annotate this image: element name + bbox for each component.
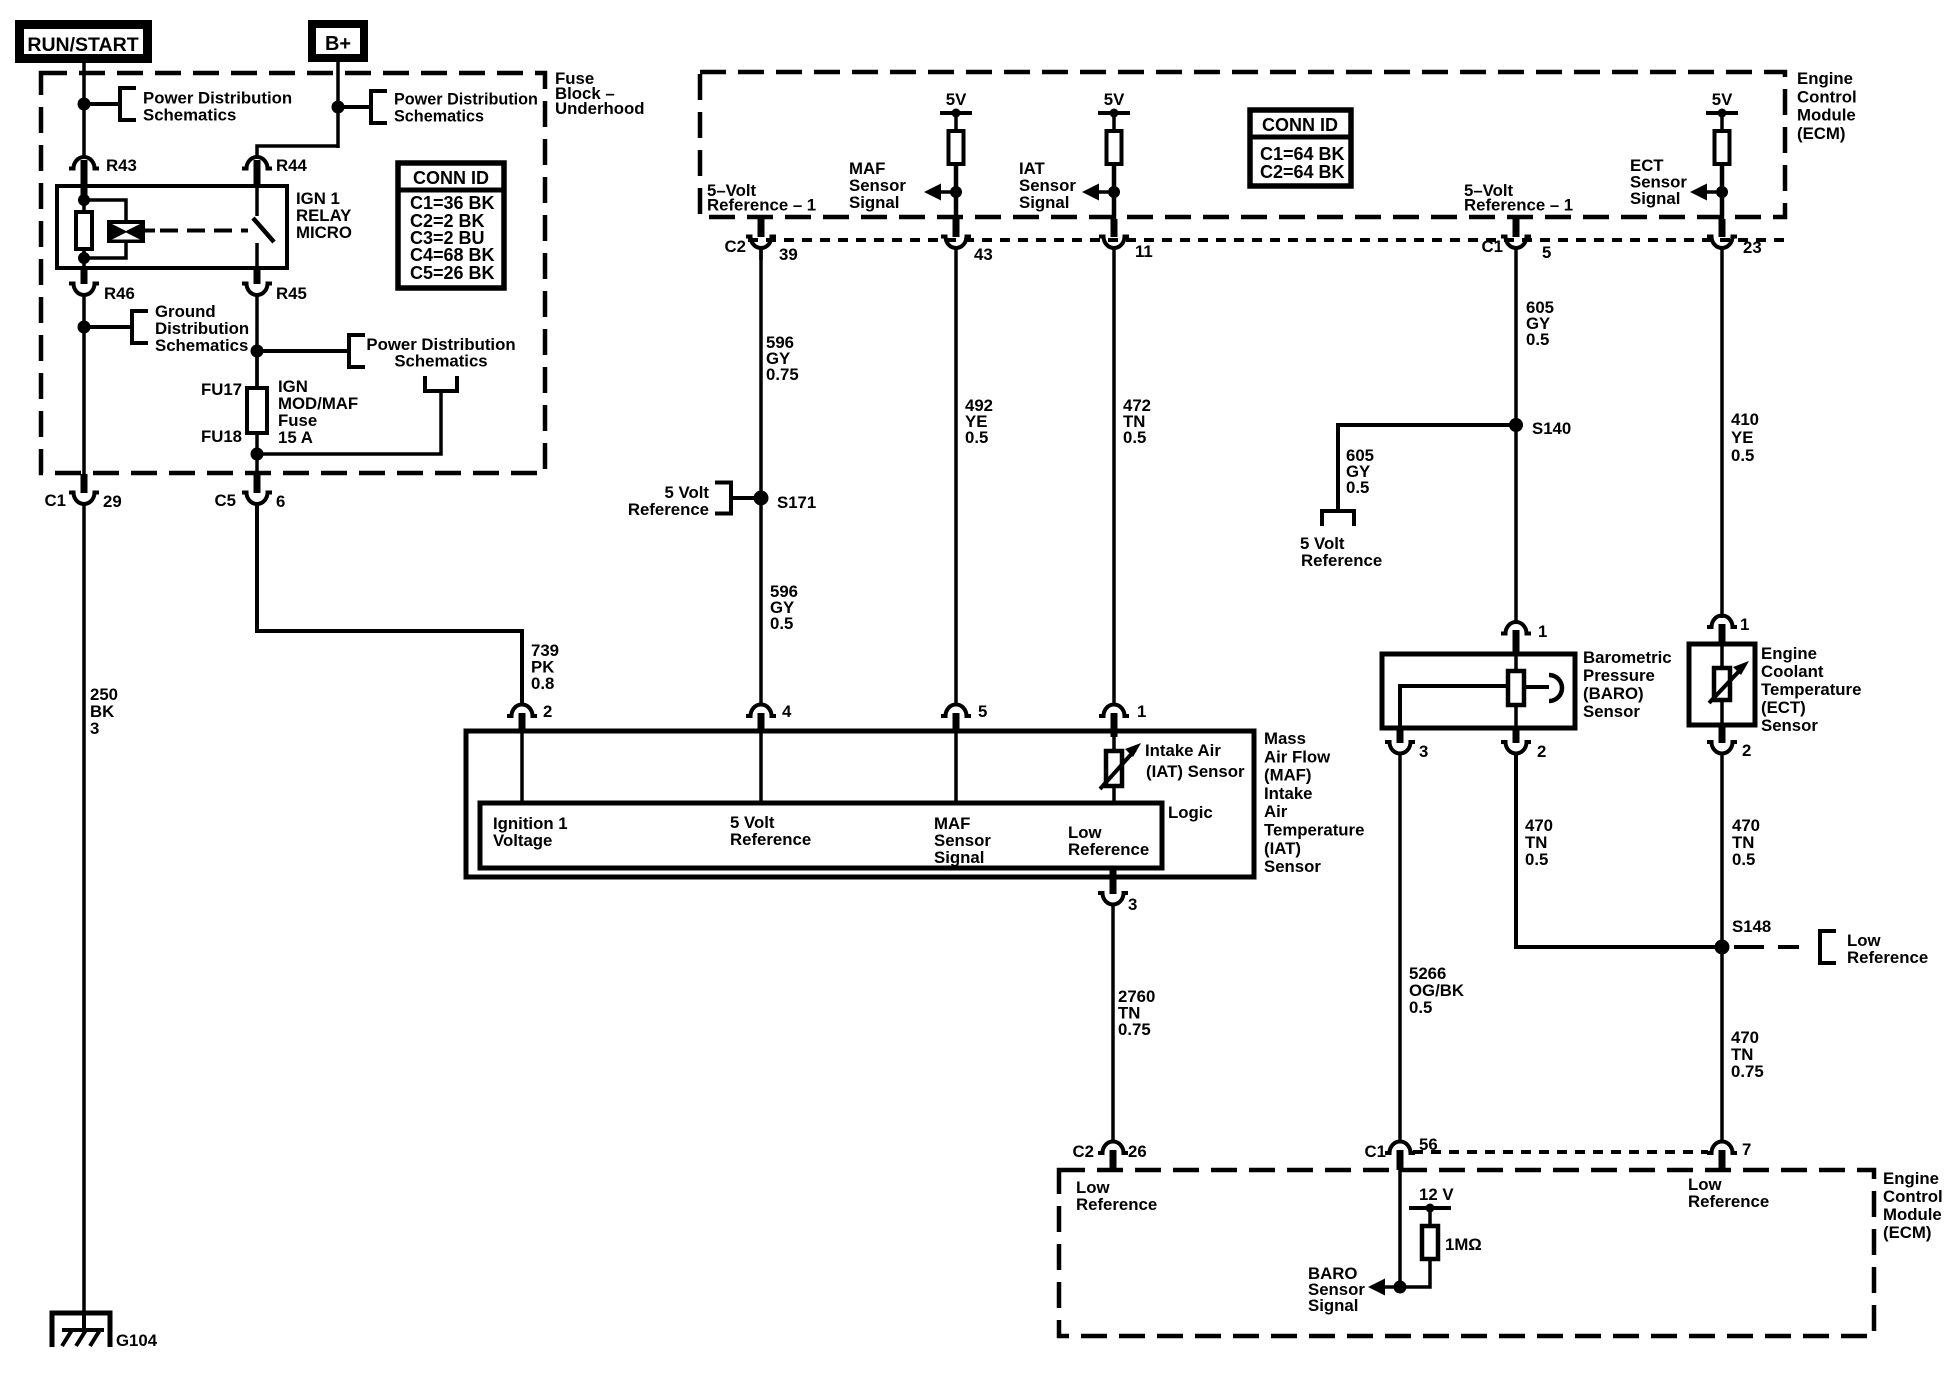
svg-text:5: 5 bbox=[978, 702, 987, 721]
svg-text:RUN/START: RUN/START bbox=[27, 34, 138, 56]
connector R46 bbox=[81, 268, 88, 284]
svg-text:0.5: 0.5 bbox=[965, 428, 988, 447]
svg-text:3: 3 bbox=[90, 719, 99, 738]
svg-text:0.5: 0.5 bbox=[1123, 428, 1146, 447]
svg-text:Mass: Mass bbox=[1264, 729, 1306, 748]
svg-text:B+: B+ bbox=[325, 33, 351, 55]
connector 1 (BARO) bbox=[1501, 622, 1531, 634]
svg-text:Engine: Engine bbox=[1883, 1169, 1939, 1188]
svg-text:Reference: Reference bbox=[1301, 551, 1382, 570]
svg-text:3: 3 bbox=[1419, 742, 1428, 761]
svg-text:S140: S140 bbox=[1532, 419, 1571, 438]
svg-text:Underhood: Underhood bbox=[555, 99, 645, 118]
connector 3 bbox=[1110, 869, 1117, 894]
svg-text:Reference: Reference bbox=[1688, 1192, 1769, 1211]
svg-text:Coolant: Coolant bbox=[1761, 662, 1824, 681]
svg-text:0.5: 0.5 bbox=[1409, 998, 1432, 1017]
svg-text:Schematics: Schematics bbox=[143, 106, 236, 125]
svg-text:FU18: FU18 bbox=[201, 427, 242, 446]
connector 1 (ECT) bbox=[1707, 616, 1737, 628]
splice S148 bbox=[1715, 940, 1730, 955]
connector 2 (ECT) bbox=[1719, 725, 1726, 743]
ECM harness connector dotted line bbox=[748, 238, 1788, 242]
svg-text:Control: Control bbox=[1797, 87, 1857, 106]
svg-text:C2=64 BK: C2=64 BK bbox=[1260, 162, 1345, 182]
relay coil branch wire bbox=[84, 200, 126, 220]
junction to power distribution tap bbox=[332, 101, 345, 114]
relay switch fixed contact bbox=[255, 186, 259, 216]
svg-text:Pressure: Pressure bbox=[1583, 666, 1655, 685]
svg-text:C4=68 BK: C4=68 BK bbox=[410, 245, 495, 265]
connector C1 29 bbox=[81, 474, 88, 493]
svg-text:Logic: Logic bbox=[1168, 803, 1213, 822]
svg-text:Intake Air: Intake Air bbox=[1145, 741, 1221, 760]
svg-text:6: 6 bbox=[276, 492, 285, 511]
wire 596 GY to S171 and connector 4 bbox=[759, 246, 763, 706]
signal arrow bbox=[1716, 186, 1728, 198]
svg-text:C1: C1 bbox=[1482, 237, 1503, 256]
svg-text:FU17: FU17 bbox=[201, 380, 242, 399]
svg-text:5V: 5V bbox=[1104, 90, 1125, 109]
svg-text:29: 29 bbox=[103, 492, 122, 511]
svg-text:Sensor: Sensor bbox=[1583, 702, 1640, 721]
svg-text:MICRO: MICRO bbox=[296, 223, 352, 242]
connector 4 bbox=[746, 705, 776, 717]
CONN ID table (ECM) bbox=[1250, 110, 1351, 186]
connector C5 6 bbox=[254, 474, 261, 493]
connector 11 bbox=[1111, 219, 1118, 237]
svg-text:1: 1 bbox=[1740, 615, 1749, 634]
svg-text:4: 4 bbox=[782, 702, 792, 721]
wire 2760 TN bbox=[1111, 903, 1115, 1143]
svg-text:Reference – 1: Reference – 1 bbox=[1464, 196, 1573, 215]
off-page tap Power Distribution Schematics bbox=[120, 88, 136, 120]
Engine Control Module (ECM) dashed boundary bbox=[700, 72, 1785, 217]
wire 250 BK to ground bbox=[82, 503, 86, 1316]
junction BARO signal bbox=[1394, 1281, 1407, 1294]
svg-text:Schematics: Schematics bbox=[394, 352, 487, 371]
terminal wires inside MAF box bbox=[520, 731, 524, 803]
relay switch blade bbox=[253, 218, 274, 242]
svg-text:Engine: Engine bbox=[1797, 69, 1853, 88]
CONN ID table (fuse block) bbox=[398, 163, 504, 288]
wire C5 to MAF connector 2 bbox=[257, 503, 522, 705]
svg-text:Schematics: Schematics bbox=[394, 108, 484, 126]
wire 5266 OG/BK BARO-3 down bbox=[1398, 752, 1402, 1143]
svg-text:C5: C5 bbox=[215, 491, 236, 510]
relay coil lower node bbox=[78, 252, 90, 264]
svg-text:S171: S171 bbox=[777, 493, 816, 512]
svg-text:26: 26 bbox=[1128, 1142, 1147, 1161]
wire RUN/START down to R43 bbox=[82, 63, 86, 157]
off-page tap 5 Volt Reference bbox=[715, 483, 731, 514]
off-page tap Power Distribution Schematics bbox=[371, 91, 387, 123]
connector 7 bbox=[1707, 1142, 1737, 1154]
relay switch lower contact bbox=[255, 243, 259, 268]
svg-text:Voltage: Voltage bbox=[493, 831, 552, 850]
svg-text:Reference: Reference bbox=[628, 500, 709, 519]
wire R45 down to fuse bbox=[255, 294, 259, 388]
svg-text:R43: R43 bbox=[106, 156, 137, 175]
svg-text:CONN ID: CONN ID bbox=[1262, 115, 1338, 135]
svg-text:2: 2 bbox=[1537, 742, 1546, 761]
svg-text:C2: C2 bbox=[1073, 1142, 1094, 1161]
IAT thermistor bbox=[1112, 735, 1116, 751]
connector C2 26 bbox=[1098, 1142, 1128, 1154]
svg-text:Schematics: Schematics bbox=[155, 336, 248, 355]
svg-text:43: 43 bbox=[974, 245, 993, 264]
junction to power distribution tap bbox=[78, 98, 91, 111]
connector R44 bbox=[242, 157, 272, 169]
svg-text:11: 11 bbox=[1135, 242, 1153, 261]
BARO internal low reference wire bbox=[1400, 686, 1509, 728]
wire 472 TN bbox=[1112, 246, 1116, 706]
svg-text:0.75: 0.75 bbox=[1118, 1020, 1151, 1039]
svg-text:R44: R44 bbox=[276, 156, 307, 175]
svg-text:(IAT): (IAT) bbox=[1264, 839, 1301, 858]
off-page tap Ground Distribution Schematics bbox=[132, 311, 148, 343]
fuse block underhood dashed boundary bbox=[41, 73, 545, 473]
splice S140 bbox=[1509, 418, 1523, 432]
relay actuation dashed link bbox=[145, 229, 155, 233]
svg-text:0.5: 0.5 bbox=[1526, 330, 1549, 349]
wire C2-39 stub bbox=[759, 247, 763, 260]
svg-text:1: 1 bbox=[1538, 622, 1547, 641]
svg-text:0.5: 0.5 bbox=[1732, 850, 1755, 869]
power feed box B+ bbox=[308, 20, 368, 62]
wire R46 down bbox=[82, 294, 86, 478]
wire below fuse bbox=[255, 433, 259, 478]
relay coil (bowtie symbol) bbox=[107, 220, 145, 243]
power feed box RUN/START bbox=[15, 20, 152, 63]
wire 470 TN BARO-2 to S148 bbox=[1516, 752, 1722, 947]
svg-text:1MΩ: 1MΩ bbox=[1445, 1235, 1482, 1254]
svg-text:Barometric: Barometric bbox=[1583, 648, 1672, 667]
relay suppression resistor bbox=[82, 200, 86, 212]
connector 5 bbox=[941, 705, 971, 717]
svg-text:C1: C1 bbox=[45, 491, 66, 510]
svg-text:Sensor: Sensor bbox=[1264, 857, 1321, 876]
off-page tap pointer down bbox=[1322, 511, 1354, 526]
fuse IGN MOD/MAF 15A FU17-FU18 bbox=[255, 351, 259, 388]
svg-text:Module: Module bbox=[1797, 106, 1856, 125]
ground G104 bbox=[52, 1313, 110, 1347]
off-page tap Low Reference bbox=[1820, 931, 1836, 963]
wire S140 branch to 5 volt reference pointer bbox=[1338, 425, 1516, 511]
svg-text:Temperature: Temperature bbox=[1761, 680, 1861, 699]
svg-text:(ECM): (ECM) bbox=[1797, 124, 1845, 143]
off-page tap Power Distribution Schematics (right) bbox=[349, 335, 365, 367]
svg-text:5V: 5V bbox=[1712, 90, 1733, 109]
BARO signal arrow bbox=[1385, 1285, 1400, 1289]
svg-text:12 V: 12 V bbox=[1419, 1185, 1454, 1204]
connector 23 bbox=[1719, 219, 1726, 237]
svg-text:0.5: 0.5 bbox=[770, 614, 793, 633]
wire 492 YE bbox=[954, 246, 958, 706]
signal arrow bbox=[1108, 186, 1120, 198]
connector 2 bbox=[507, 705, 537, 717]
svg-text:410: 410 bbox=[1731, 410, 1759, 429]
svg-text:C2: C2 bbox=[725, 237, 746, 256]
svg-text:Reference: Reference bbox=[1076, 1195, 1157, 1214]
svg-text:39: 39 bbox=[779, 245, 798, 264]
svg-text:(ECT): (ECT) bbox=[1761, 698, 1806, 717]
BARO sensor box bbox=[1382, 654, 1575, 728]
relay coil input node bbox=[78, 194, 90, 206]
svg-text:Reference: Reference bbox=[1068, 840, 1149, 859]
connector 3 (BARO) bbox=[1397, 728, 1404, 743]
svg-text:S148: S148 bbox=[1732, 917, 1771, 936]
svg-text:2: 2 bbox=[543, 702, 552, 721]
relay IGN 1 RELAY MICRO box bbox=[57, 186, 287, 268]
svg-text:0.5: 0.5 bbox=[1525, 850, 1548, 869]
svg-text:0.8: 0.8 bbox=[531, 674, 554, 693]
svg-text:2: 2 bbox=[1742, 741, 1751, 760]
wire 470 TN ECT-2 down through S148 bbox=[1720, 752, 1724, 1143]
MAF logic box bbox=[480, 803, 1162, 868]
svg-text:5: 5 bbox=[1542, 243, 1551, 262]
svg-text:Signal: Signal bbox=[849, 193, 899, 212]
wire B+ down with jog to R44 bbox=[336, 62, 340, 148]
svg-text:CONN ID: CONN ID bbox=[413, 168, 489, 188]
junction ground distribution tap bbox=[78, 321, 91, 334]
connector R45 bbox=[254, 268, 261, 284]
svg-text:15 A: 15 A bbox=[278, 428, 313, 447]
svg-text:Power Distribution: Power Distribution bbox=[394, 91, 538, 109]
dashed link to low reference tap bbox=[1734, 945, 1799, 949]
junction below fuse bbox=[251, 448, 264, 461]
connector 43 bbox=[953, 219, 960, 237]
svg-text:Reference – 1: Reference – 1 bbox=[707, 196, 816, 215]
svg-text:(IAT) Sensor: (IAT) Sensor bbox=[1146, 762, 1245, 781]
svg-text:5V: 5V bbox=[946, 90, 967, 109]
svg-text:0.75: 0.75 bbox=[766, 365, 799, 384]
MAF/IAT sensor outer box bbox=[466, 731, 1254, 877]
ECT sensor box bbox=[1689, 644, 1755, 725]
BARO internal resistor bbox=[1514, 654, 1518, 671]
svg-text:R46: R46 bbox=[104, 284, 135, 303]
svg-text:Signal: Signal bbox=[1019, 193, 1069, 212]
svg-text:(MAF): (MAF) bbox=[1264, 766, 1312, 785]
svg-text:Signal: Signal bbox=[1630, 189, 1680, 208]
svg-text:C1=64 BK: C1=64 BK bbox=[1260, 144, 1345, 164]
svg-text:R45: R45 bbox=[276, 284, 307, 303]
connector 1 bbox=[1099, 705, 1129, 717]
wire 410 YE to ECT bbox=[1720, 246, 1724, 618]
svg-text:(ECM): (ECM) bbox=[1883, 1223, 1931, 1242]
junction fuse / power distribution tap bbox=[251, 345, 264, 358]
svg-text:C5=26 BK: C5=26 BK bbox=[410, 263, 495, 283]
svg-text:(BARO): (BARO) bbox=[1583, 684, 1644, 703]
svg-text:Temperature: Temperature bbox=[1264, 821, 1364, 840]
svg-text:7: 7 bbox=[1742, 1140, 1751, 1159]
svg-text:Engine: Engine bbox=[1761, 644, 1817, 663]
Engine Control Module (ECM) bottom dashed boundary bbox=[1059, 1170, 1874, 1336]
svg-text:3: 3 bbox=[1128, 895, 1137, 914]
svg-text:23: 23 bbox=[1743, 238, 1762, 257]
svg-text:0.5: 0.5 bbox=[1731, 446, 1754, 465]
connector C1 5 bbox=[1513, 219, 1520, 237]
BARO pressure transducer arc bbox=[1524, 685, 1549, 689]
svg-text:Signal: Signal bbox=[934, 848, 984, 867]
connector C1 56 bbox=[1385, 1142, 1415, 1154]
svg-text:Module: Module bbox=[1883, 1205, 1942, 1224]
connector 2 (BARO) bbox=[1513, 728, 1520, 743]
svg-text:0.75: 0.75 bbox=[1731, 1062, 1764, 1081]
ECT thermistor bbox=[1720, 644, 1724, 668]
svg-text:Air: Air bbox=[1264, 802, 1288, 821]
bottom ECM harness connector dotted line bbox=[1413, 1150, 1708, 1154]
svg-text:Intake: Intake bbox=[1264, 784, 1313, 803]
svg-text:Control: Control bbox=[1883, 1187, 1943, 1206]
wire 605 GY C1-5 to BARO bbox=[1514, 246, 1518, 624]
wire coil to lower node bbox=[88, 243, 126, 258]
svg-text:C1: C1 bbox=[1365, 1142, 1386, 1161]
signal arrow bbox=[950, 186, 962, 198]
svg-text:Reference: Reference bbox=[1847, 948, 1928, 967]
off-page tap pointer up bbox=[425, 376, 457, 391]
svg-text:Sensor: Sensor bbox=[1761, 716, 1818, 735]
svg-text:G104: G104 bbox=[116, 1331, 158, 1350]
svg-text:C1=36 BK: C1=36 BK bbox=[410, 193, 495, 213]
svg-text:YE: YE bbox=[1731, 428, 1753, 447]
svg-text:1: 1 bbox=[1137, 702, 1146, 721]
svg-text:0.5: 0.5 bbox=[1346, 478, 1369, 497]
connector R43 bbox=[69, 157, 99, 169]
svg-text:Signal: Signal bbox=[1308, 1296, 1358, 1315]
BARO signal wire inside ECM bbox=[1398, 1170, 1402, 1290]
connector C2 39 bbox=[758, 219, 765, 237]
wire tap to power distribution bracket bbox=[257, 393, 441, 454]
splice S171 bbox=[754, 491, 769, 506]
svg-text:Air Flow: Air Flow bbox=[1264, 747, 1331, 766]
svg-text:Reference: Reference bbox=[730, 830, 811, 849]
